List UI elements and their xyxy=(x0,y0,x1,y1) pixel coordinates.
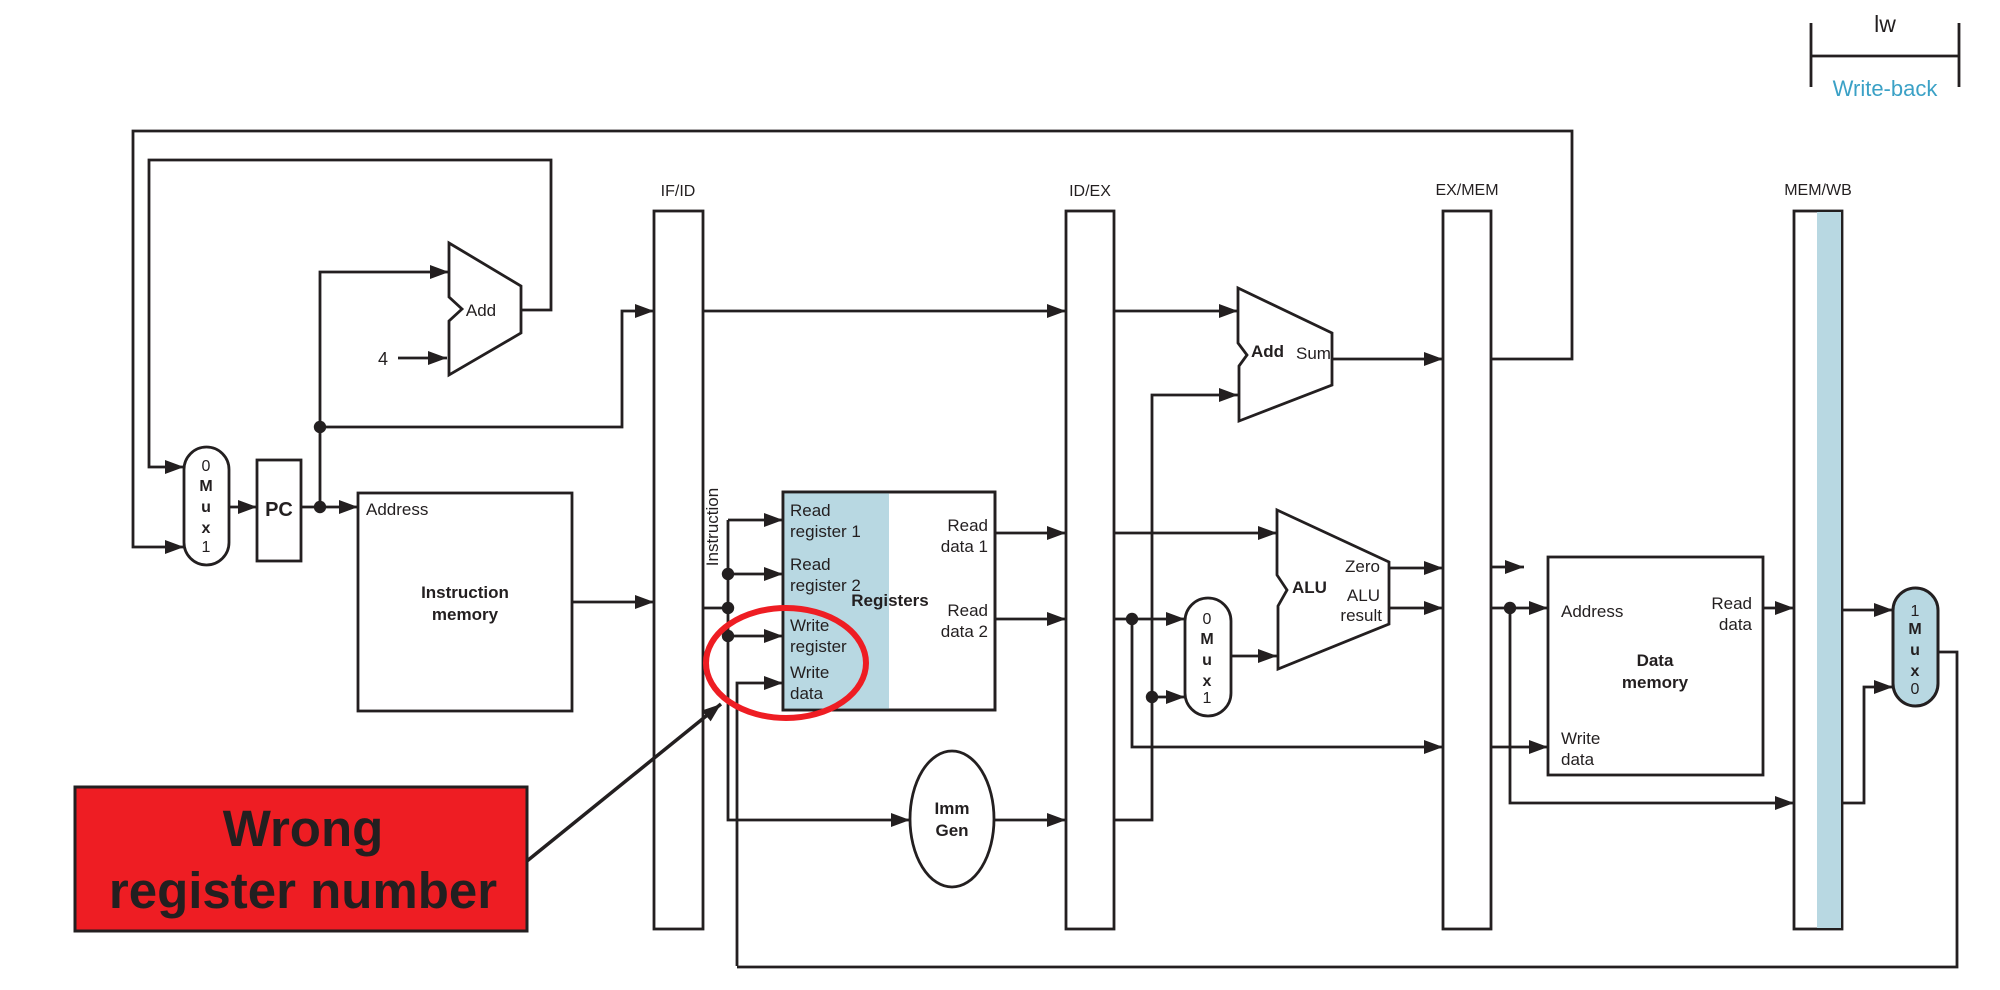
svg-text:4: 4 xyxy=(378,349,388,369)
svg-text:u: u xyxy=(1202,652,1212,669)
svg-text:MEM/WB: MEM/WB xyxy=(1784,182,1852,199)
svg-text:Write: Write xyxy=(790,616,829,635)
svg-text:u: u xyxy=(201,499,211,516)
svg-text:1: 1 xyxy=(1911,603,1920,620)
svg-text:ALU: ALU xyxy=(1347,586,1380,605)
svg-text:Imm: Imm xyxy=(935,799,970,818)
svg-text:Address: Address xyxy=(366,500,428,519)
svg-text:x: x xyxy=(1911,663,1920,680)
svg-text:Instruction: Instruction xyxy=(421,583,509,602)
svg-text:lw: lw xyxy=(1874,11,1896,37)
svg-text:Zero: Zero xyxy=(1345,557,1380,576)
svg-text:1: 1 xyxy=(1203,690,1212,707)
svg-text:ID/EX: ID/EX xyxy=(1069,183,1111,200)
svg-text:Wrong: Wrong xyxy=(223,800,384,857)
svg-text:Read: Read xyxy=(947,516,988,535)
svg-text:Data: Data xyxy=(1637,651,1674,670)
svg-text:PC: PC xyxy=(265,499,293,521)
svg-text:EX/MEM: EX/MEM xyxy=(1435,182,1498,199)
svg-text:Registers: Registers xyxy=(851,591,928,610)
svg-text:Write: Write xyxy=(1561,729,1600,748)
svg-text:IF/ID: IF/ID xyxy=(661,183,696,200)
svg-text:Instruction: Instruction xyxy=(703,488,722,566)
svg-text:0: 0 xyxy=(1911,681,1920,698)
svg-text:register 2: register 2 xyxy=(790,576,861,595)
svg-text:M: M xyxy=(199,478,212,495)
svg-text:memory: memory xyxy=(1622,673,1689,692)
svg-text:M: M xyxy=(1908,621,1921,638)
svg-text:0: 0 xyxy=(1203,611,1212,628)
svg-text:data: data xyxy=(1719,615,1753,634)
svg-text:data: data xyxy=(790,684,824,703)
svg-text:Read: Read xyxy=(790,555,831,574)
svg-text:M: M xyxy=(1200,631,1213,648)
svg-text:Write: Write xyxy=(790,663,829,682)
svg-text:Write-back: Write-back xyxy=(1833,76,1939,101)
svg-text:register 1: register 1 xyxy=(790,522,861,541)
svg-text:data: data xyxy=(1561,750,1595,769)
svg-text:ALU: ALU xyxy=(1292,578,1327,597)
svg-text:u: u xyxy=(1910,642,1920,659)
svg-text:memory: memory xyxy=(432,605,499,624)
svg-text:Address: Address xyxy=(1561,602,1623,621)
svg-text:x: x xyxy=(1203,673,1212,690)
svg-text:Read: Read xyxy=(1711,594,1752,613)
svg-text:1: 1 xyxy=(202,539,211,556)
svg-text:Sum: Sum xyxy=(1296,344,1331,363)
svg-text:Add: Add xyxy=(1251,342,1284,361)
svg-text:Gen: Gen xyxy=(935,821,968,840)
svg-text:result: result xyxy=(1340,606,1382,625)
svg-text:data 2: data 2 xyxy=(941,622,988,641)
svg-text:register number: register number xyxy=(109,862,497,919)
svg-text:Add: Add xyxy=(466,301,496,320)
svg-text:0: 0 xyxy=(202,458,211,475)
svg-text:register: register xyxy=(790,637,847,656)
svg-text:data 1: data 1 xyxy=(941,537,988,556)
svg-text:Read: Read xyxy=(947,601,988,620)
svg-text:x: x xyxy=(202,520,211,537)
svg-text:Read: Read xyxy=(790,501,831,520)
